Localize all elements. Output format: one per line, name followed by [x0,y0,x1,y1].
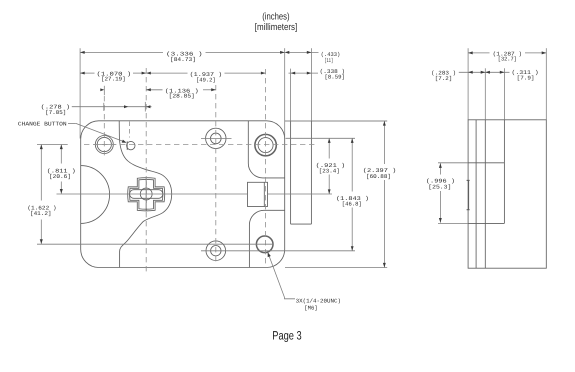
dim .433 line [286,51,319,53]
svg-text:[46.8]: [46.8] [342,200,362,207]
dim .921 text [316,162,346,175]
side ext y223 left [438,222,468,224]
side ext x504 up [503,68,505,120]
inner plate upper edge [248,121,284,178]
svg-text:[7.05]: [7.05] [45,109,66,116]
dim .811 line [60,145,62,194]
ext line y251 right [201,250,355,252]
ext line y267 right [285,267,387,269]
dim .921 arrows [328,138,331,194]
dim 1.070 arrows [80,72,146,75]
cam cross inner [130,179,163,209]
title text (inches) [262,11,289,22]
dim .996 text [426,178,455,191]
dim 1.622 line [40,145,42,244]
dim 1.843 arrows [351,138,354,251]
dim .283 text [431,70,456,83]
cam center vertical mark [145,178,147,212]
ext line y138 right [286,137,356,139]
hole H2 center mark [201,137,232,139]
svg-text:Page 3: Page 3 [272,329,302,343]
dim 2.397 arrows [383,121,386,268]
cam centerline horizontal [57,193,333,195]
side view line y223 [468,222,504,224]
dim .283/.311 line [459,71,510,73]
ext centerline left [37,144,68,146]
dim 2.397 text [363,167,397,180]
title text [millimeters] [255,22,297,33]
dim 1.136 tick at hole1 col [100,86,104,95]
svg-text:[8.59]: [8.59] [325,74,345,81]
dim 1.937 line [146,72,265,74]
dim .278 line [72,106,152,108]
dim .278 text [41,104,70,116]
hole H2 outer [206,128,226,148]
dim .811 text [47,167,76,180]
hole H4 outer [206,241,226,261]
side ext x485 up [484,68,486,120]
dim .811 arrows [60,145,63,194]
svg-text:[11]: [11] [325,57,334,64]
svg-text:[millimeters]: [millimeters] [255,22,297,33]
svg-text:[27.19]: [27.19] [101,76,126,83]
thread callout leader [268,252,295,299]
page number [272,329,302,343]
hole H5 [256,236,273,253]
dashed centerline cam column [145,68,147,272]
dashed centerline right hole column [265,69,267,265]
dim 1.622 text [27,204,56,217]
side view outline [468,120,546,268]
flange/case top edge extension [285,120,388,122]
inner plate lower edge [249,210,284,267]
svg-text:[28.85]: [28.85] [169,93,195,100]
side view line x485 [484,120,486,268]
dim 1.136 arrows [146,88,216,91]
hole H1 center mark [94,144,116,146]
side view slot ticks [467,180,470,209]
square cutout [248,182,268,206]
svg-text:[7.2]: [7.2] [435,75,452,82]
dim 1.287 text [493,51,522,63]
dim .433 arrows [285,51,312,54]
dim .311 text [512,69,539,81]
dim 1.287 arrows [468,51,546,54]
dim 1.622 arrows [40,145,43,244]
dim 2.397 line [383,121,385,268]
svg-text:[7.9]: [7.9] [517,74,535,81]
side ext y163 left [438,162,468,164]
dim 3.336 ext left [79,48,81,138]
left edge notch semicircle [81,166,110,224]
side view line y163 [468,162,504,164]
dim 1.937 arrows [146,72,265,75]
dim .921 line [328,138,330,194]
svg-text:[23.4]: [23.4] [319,167,340,174]
hole H2 inner [211,133,222,144]
dim 1.070 text [97,71,132,83]
dashed centerline hole1 column [103,96,105,159]
dim 3.336 text [166,50,203,63]
flange left edge [290,121,292,224]
dim .338 ext [290,69,292,122]
thread callout text [296,298,341,312]
side view line x504 [503,120,505,224]
svg-text:[41.2]: [41.2] [30,210,52,217]
svg-text:[84.73]: [84.73] [170,56,196,63]
dim .996 line [439,163,441,222]
dim 3.336 arrows [80,51,285,54]
change button label [18,121,67,128]
dim 1.136 line [146,89,216,91]
dim 1.070 line [80,72,146,74]
dim 1.287 line [468,52,546,54]
case step S-curve [119,121,172,267]
dim 1.843 text [336,195,369,208]
hole H1 inner [97,137,111,151]
hole H3 inner [258,138,273,153]
svg-text:[20.6]: [20.6] [49,173,71,180]
svg-text:(inches): (inches) [262,11,289,22]
svg-text:[49.2]: [49.2] [196,76,216,83]
dim 1.136 text [165,87,199,99]
dim .433 text [321,51,340,64]
lock case outline [81,121,285,268]
flange right edge [310,121,312,224]
dashed centerline mid hole column [215,85,217,265]
dim .338 text [320,68,345,81]
change button leader [68,123,127,142]
hole H4 inner [211,246,221,256]
svg-text:CHANGE BUTTON: CHANGE BUTTON [18,121,67,128]
dim .433 ext right [310,48,312,121]
ext line y244 [37,243,273,245]
flange bottom edge [291,223,312,225]
svg-text:[M6]: [M6] [304,305,317,312]
side ext x546 up [545,48,547,120]
svg-text:3X(1/4-20UNC): 3X(1/4-20UNC) [296,298,341,305]
cam cross outer [128,178,165,211]
cam slot [130,190,163,199]
side ext x468 up [467,48,469,120]
dim 1.843 line [351,138,353,251]
side view line x476 [475,120,477,268]
hole H3 outer [255,134,276,155]
svg-text:[25.3]: [25.3] [428,184,451,191]
dim .996 arrows [439,163,442,222]
change button glyph [127,141,135,150]
cam center circle [140,188,152,200]
dim .338 line [289,72,319,74]
dashed centerline horizontal [84,144,316,146]
hole H1 outer [95,136,113,154]
dim .311 arrows [485,71,504,74]
dim 3.336 line [80,51,285,53]
dim .278 arrows [124,105,150,108]
dashed centerline button column [129,122,131,138]
svg-text:[32.7]: [32.7] [498,56,517,63]
dim 1.937 text [190,71,223,83]
dim .283 arrows [468,71,485,74]
dim 3.336 ext right [284,48,286,138]
dim .338 arrows [291,72,312,75]
svg-text:[60.88]: [60.88] [366,173,391,180]
dim .278 ticks [104,102,146,112]
